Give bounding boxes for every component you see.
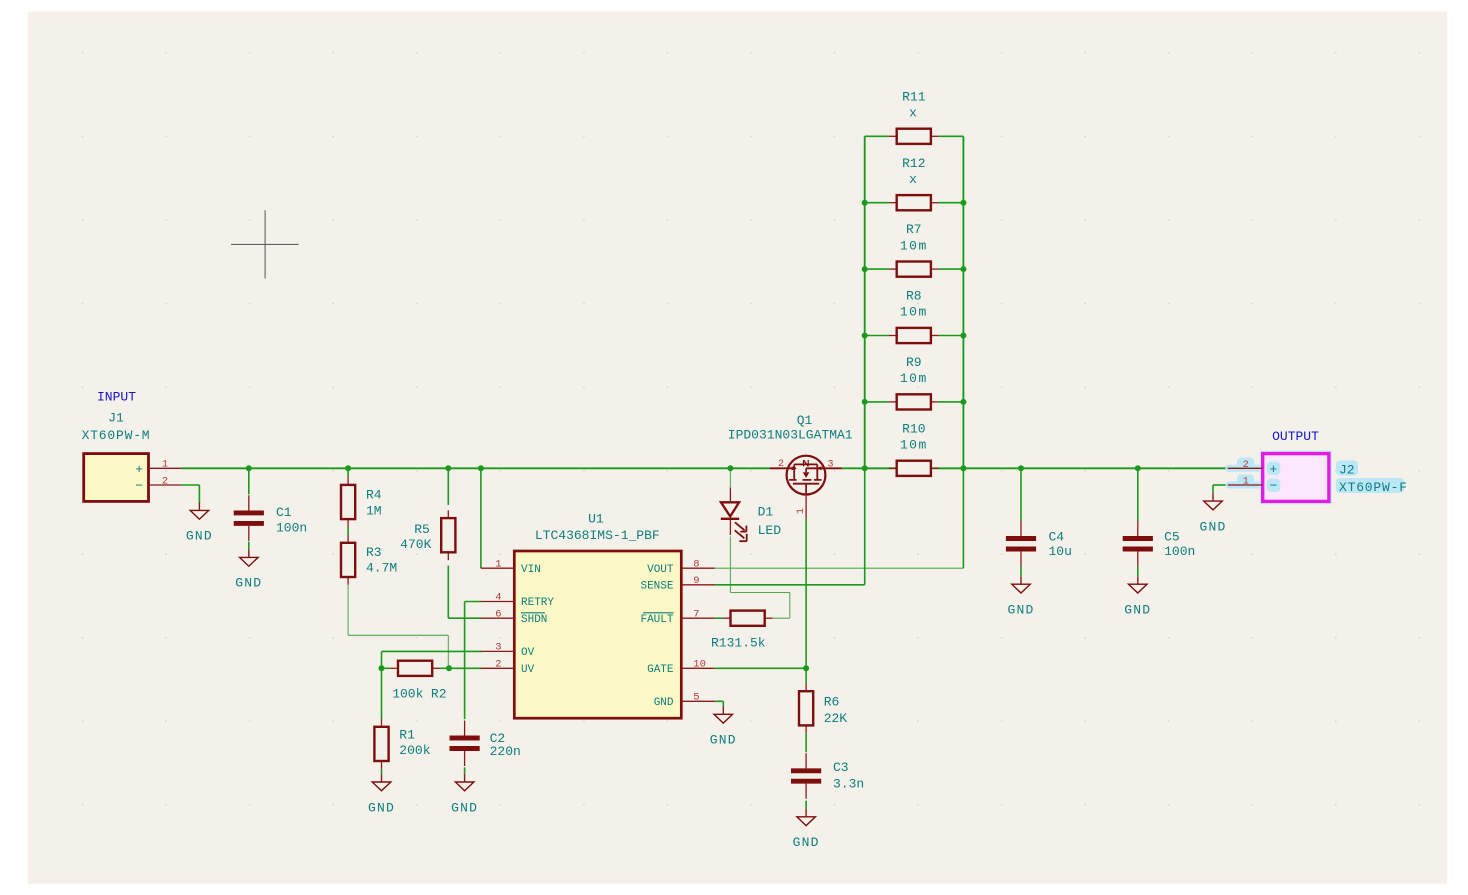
svg-text:10m: 10m [900,305,928,320]
svg-text:4: 4 [495,592,501,604]
svg-text:R7: R7 [906,222,922,237]
svg-text:10m: 10m [900,238,928,253]
svg-text:R1: R1 [399,728,415,743]
svg-text:+: + [1270,462,1278,477]
svg-text:1: 1 [495,558,501,570]
svg-text:Q1: Q1 [797,413,813,428]
svg-text:3.3n: 3.3n [833,776,864,791]
svg-text:OUTPUT: OUTPUT [1272,429,1319,444]
svg-text:XT60PW-M: XT60PW-M [82,428,151,443]
svg-text:LED: LED [758,523,782,538]
svg-text:GND: GND [654,697,674,709]
svg-text:R11: R11 [902,89,926,104]
svg-text:1: 1 [1243,477,1249,488]
svg-text:XT60PW-F: XT60PW-F [1339,480,1408,495]
svg-text:1: 1 [796,508,807,514]
svg-text:220n: 220n [490,744,521,759]
svg-text:GND: GND [235,576,262,591]
svg-text:J1: J1 [108,411,124,426]
svg-text:3: 3 [495,642,501,654]
svg-text:R5: R5 [414,522,430,537]
svg-text:U1: U1 [588,512,604,527]
svg-text:J2: J2 [1339,463,1355,478]
svg-text:LTC4368IMS-1_PBF: LTC4368IMS-1_PBF [535,528,660,543]
svg-text:R131.5k: R131.5k [711,635,766,650]
svg-text:−: − [135,478,143,493]
svg-text:D1: D1 [758,505,774,520]
svg-text:1M: 1M [366,504,382,519]
svg-text:10m: 10m [900,371,928,386]
svg-text:7: 7 [693,608,699,620]
svg-text:IPD031N03LGATMA1: IPD031N03LGATMA1 [728,427,853,442]
svg-text:3: 3 [827,460,833,471]
svg-text:22K: 22K [824,711,848,726]
svg-text:GND: GND [1007,603,1034,618]
svg-text:8: 8 [693,558,699,570]
svg-text:100k: 100k [392,687,423,702]
svg-text:GND: GND [186,529,213,544]
svg-text:10m: 10m [900,438,928,453]
svg-text:470K: 470K [400,537,431,552]
svg-text:GATE: GATE [647,664,674,676]
svg-text:10u: 10u [1049,544,1072,559]
svg-text:+: + [135,462,143,477]
svg-text:10: 10 [693,659,706,671]
svg-text:4.7M: 4.7M [366,561,397,576]
svg-text:GND: GND [710,733,737,748]
svg-text:6: 6 [495,608,501,620]
svg-text:SHDN: SHDN [521,614,547,626]
svg-text:RETRY: RETRY [521,597,554,609]
svg-text:INPUT: INPUT [97,390,136,405]
svg-text:OV: OV [521,647,535,659]
svg-text:R12: R12 [902,156,925,171]
svg-text:GND: GND [793,835,820,850]
svg-text:2: 2 [495,659,501,671]
svg-text:GND: GND [368,800,395,815]
svg-text:VIN: VIN [521,564,541,576]
svg-text:100n: 100n [1164,544,1195,559]
svg-text:−: − [1270,478,1278,493]
svg-text:GND: GND [451,800,478,815]
svg-text:C3: C3 [833,760,849,775]
svg-text:x: x [909,172,918,187]
svg-text:100n: 100n [276,521,307,536]
svg-text:R6: R6 [824,694,840,709]
svg-text:2: 2 [778,459,784,470]
svg-text:C4: C4 [1049,530,1065,545]
svg-text:x: x [909,106,918,121]
svg-text:1: 1 [162,460,168,471]
svg-text:R10: R10 [902,421,925,436]
svg-text:C5: C5 [1164,530,1180,545]
svg-text:FAULT: FAULT [640,614,673,626]
svg-text:R4: R4 [366,488,382,503]
svg-text:R3: R3 [366,545,382,560]
svg-text:R9: R9 [906,355,922,370]
svg-text:R2: R2 [431,687,447,702]
svg-text:GND: GND [1124,603,1151,618]
svg-text:GND: GND [1199,519,1226,534]
svg-text:VOUT: VOUT [647,564,674,576]
svg-text:R8: R8 [906,289,922,304]
svg-text:9: 9 [693,575,699,587]
svg-text:C1: C1 [276,505,292,520]
svg-text:UV: UV [521,664,535,676]
svg-text:200k: 200k [399,743,430,758]
svg-text:5: 5 [693,692,699,704]
svg-text:2: 2 [1243,460,1249,471]
svg-text:2: 2 [162,476,168,487]
svg-text:SENSE: SENSE [640,580,673,592]
